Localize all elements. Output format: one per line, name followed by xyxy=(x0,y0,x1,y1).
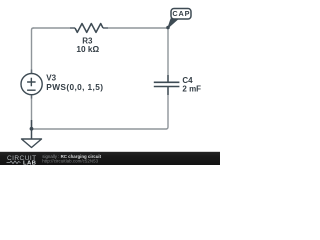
wire: top horizontal left segment (corner to R3 left lead) xyxy=(33,27,75,29)
wire: right vertical lower (C4 bottom plate down to bottom corner) xyxy=(166,87,168,129)
capacitor C4 top plate xyxy=(154,81,180,83)
capacitor C4 bottom lead stub xyxy=(167,87,169,95)
voltage source V3 bottom lead stub xyxy=(31,94,33,98)
voltage source V3 top lead stub xyxy=(31,70,33,74)
junction node dot at ground junction xyxy=(30,127,34,131)
wire: top horizontal right segment (R3 right lead to CAP corner) xyxy=(103,27,168,29)
svg-text:PWS(0,0, 1,5): PWS(0,0, 1,5) xyxy=(46,82,103,92)
resistor R3 left lead stub xyxy=(70,27,75,29)
svg-text:2 mF: 2 mF xyxy=(182,84,201,93)
voltage source V3 plus sign xyxy=(27,78,35,87)
capacitor C4 top lead stub xyxy=(167,75,169,82)
ground symbol stub wire xyxy=(31,120,33,139)
resistor R3 right lead stub xyxy=(103,27,108,29)
wire: V3 bottom to ground junction xyxy=(31,95,33,130)
footer CircuitLab logo resistor glyph xyxy=(7,161,21,164)
wire: top-left vertical from corner to V3 top xyxy=(32,28,34,74)
node CAP junction dot xyxy=(166,26,170,30)
svg-text:http://circuitlab.com/c52N53: http://circuitlab.com/c52N53 xyxy=(42,159,98,164)
node CAP flag pointer xyxy=(168,19,178,28)
voltage source V3 circle xyxy=(21,74,42,95)
svg-text:LAB: LAB xyxy=(23,160,36,165)
svg-text:CAP: CAP xyxy=(172,9,190,18)
ground symbol triangle xyxy=(22,139,42,148)
wire: right vertical upper (CAP corner down to C4 top plate) xyxy=(167,27,169,81)
wire: bottom horizontal (junction to bottom-right corner) xyxy=(32,128,167,130)
svg-text:10 kΩ: 10 kΩ xyxy=(76,44,99,54)
capacitor C4 bottom plate xyxy=(154,86,180,88)
node CAP flag box xyxy=(171,9,191,20)
voltage source V3 minus sign xyxy=(27,89,35,91)
resistor R3 zigzag xyxy=(75,24,103,33)
